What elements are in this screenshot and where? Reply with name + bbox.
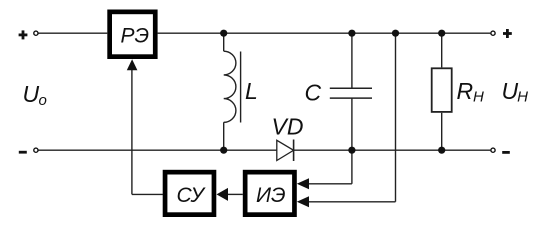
- svg-text:VD: VD: [272, 114, 304, 140]
- svg-text:U: U: [23, 81, 40, 107]
- svg-text:ИЭ: ИЭ: [256, 184, 286, 207]
- svg-text:Н: Н: [517, 89, 528, 106]
- svg-text:R: R: [457, 78, 474, 104]
- svg-text:о: о: [39, 92, 47, 109]
- svg-text:U: U: [502, 78, 519, 104]
- svg-text:L: L: [245, 78, 258, 104]
- svg-text:C: C: [305, 80, 322, 106]
- svg-text:СУ: СУ: [177, 184, 207, 207]
- svg-text:Н: Н: [473, 89, 484, 106]
- svg-text:РЭ: РЭ: [121, 25, 150, 48]
